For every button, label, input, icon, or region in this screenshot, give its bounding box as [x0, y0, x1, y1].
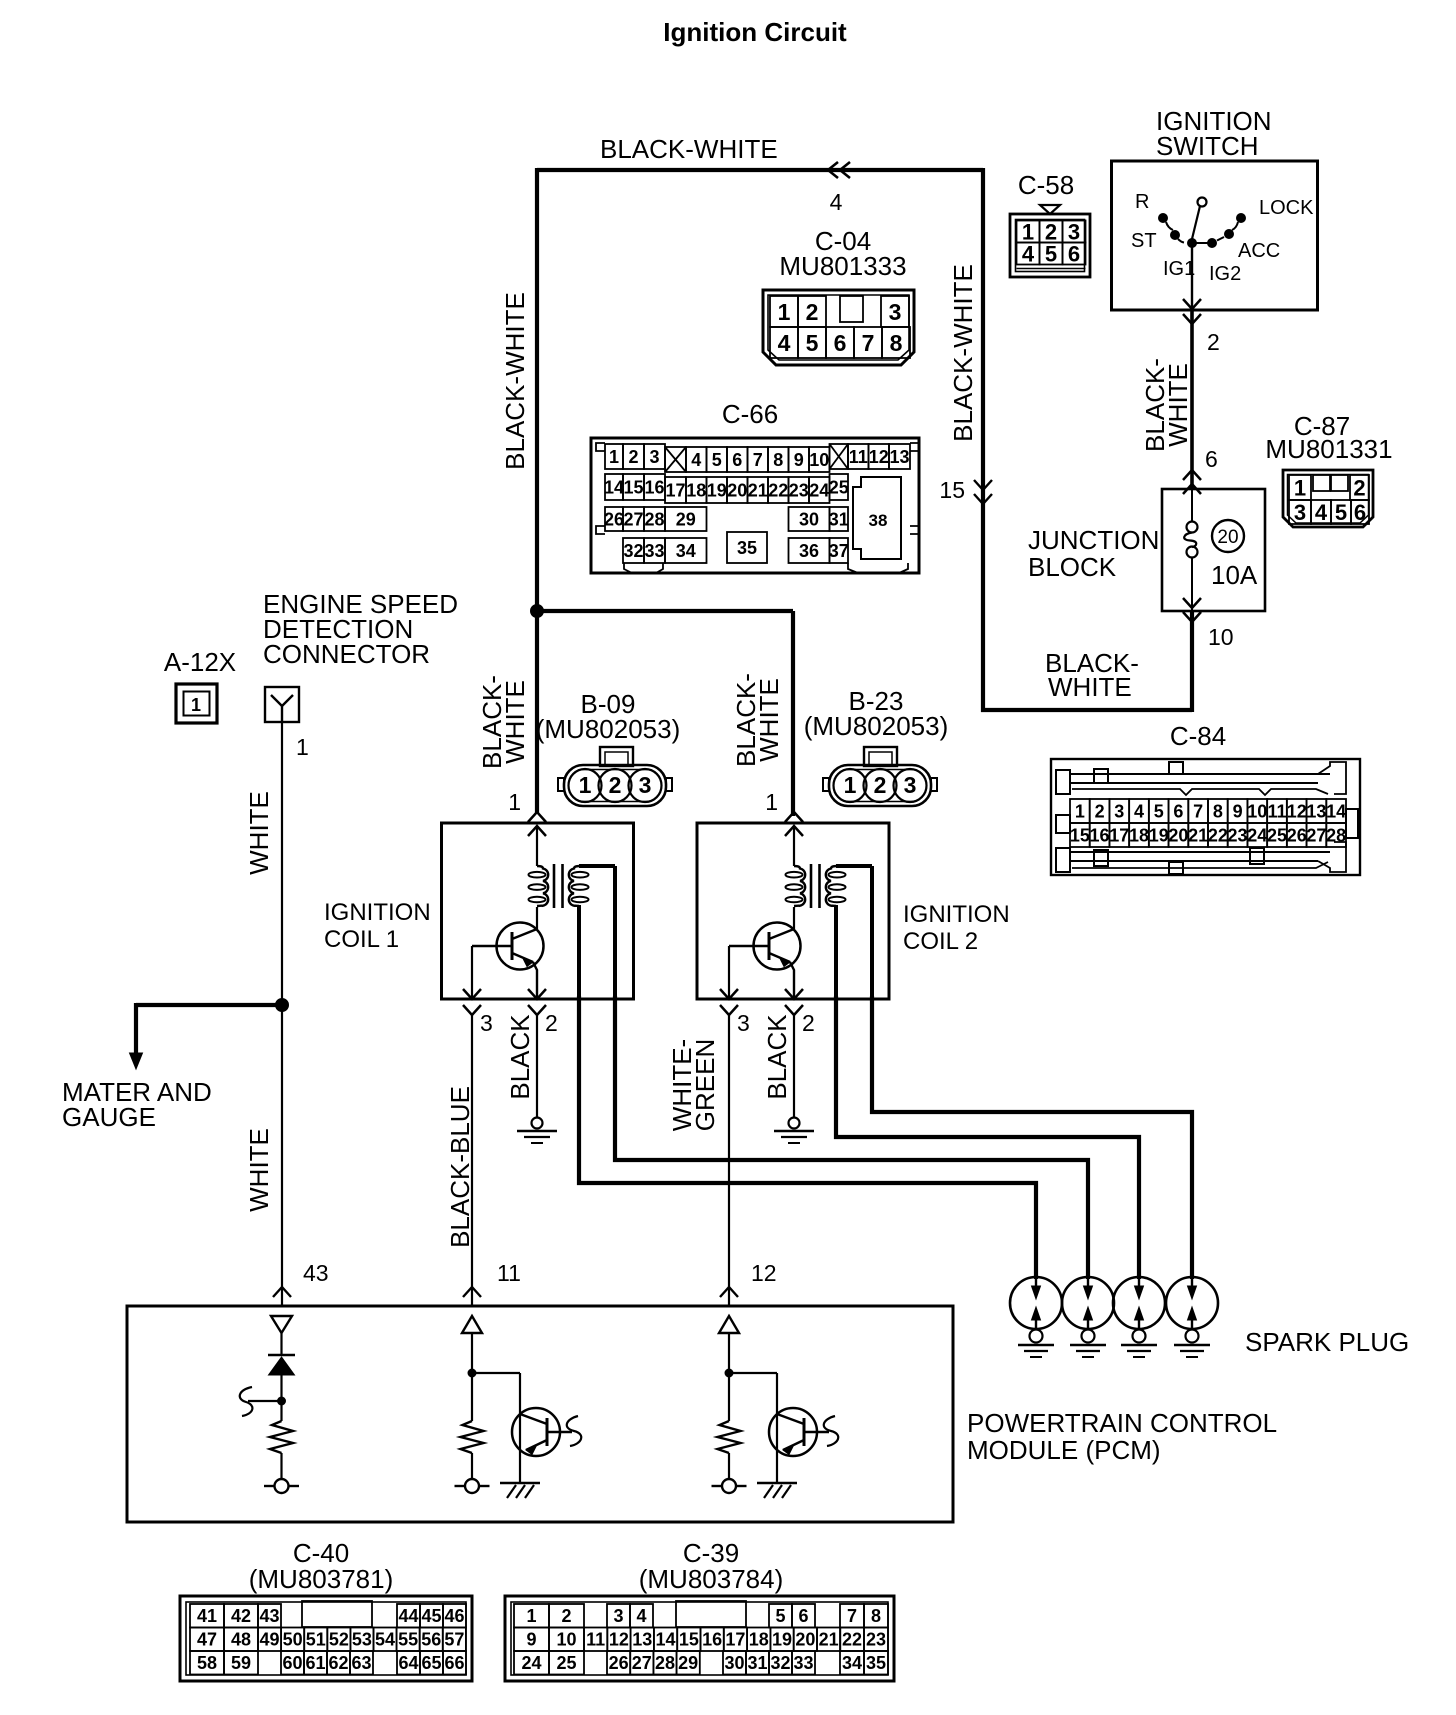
svg-text:5: 5 — [1335, 500, 1347, 525]
svg-text:BLACK-WHITE: BLACK-WHITE — [500, 292, 530, 470]
connector C-84 pin cells row 2 — [1070, 823, 1090, 847]
wire: bottom horizontal from junction block — [981, 708, 1192, 712]
connector C-04 cells — [770, 296, 798, 327]
svg-text:1: 1 — [1075, 801, 1085, 821]
svg-text:6: 6 — [1205, 446, 1218, 472]
svg-text:2: 2 — [609, 772, 622, 798]
svg-text:1: 1 — [765, 789, 778, 815]
fuse number 20 circled — [1212, 520, 1244, 552]
svg-text:17: 17 — [725, 1630, 745, 1650]
arrow into PCM pin 43 — [273, 1287, 291, 1297]
svg-text:3: 3 — [1294, 500, 1306, 525]
svg-text:15: 15 — [679, 1630, 699, 1650]
ground symbol (coil 2) — [789, 1118, 800, 1129]
svg-text:15: 15 — [1070, 825, 1090, 845]
svg-text:17: 17 — [1109, 825, 1129, 845]
connector A-12X symbol — [176, 684, 217, 723]
svg-text:19: 19 — [772, 1630, 792, 1650]
wire: WHITE from engine speed detection connector — [281, 722, 283, 1306]
svg-text:WHITE: WHITE — [244, 791, 274, 875]
transformer core (coil 1) — [553, 864, 556, 908]
svg-text:SWITCH: SWITCH — [1156, 131, 1259, 161]
connector B-09 body — [600, 747, 633, 766]
svg-text:BLACK: BLACK — [505, 1014, 535, 1100]
svg-text:9: 9 — [1233, 801, 1243, 821]
svg-text:24: 24 — [1247, 825, 1267, 845]
arrows entering junction block — [1183, 470, 1201, 480]
wire and junction (PCM pin 11) — [471, 1333, 473, 1421]
svg-text:20: 20 — [795, 1630, 815, 1650]
ignition switch contact tails — [1166, 222, 1173, 230]
svg-text:65: 65 — [421, 1653, 441, 1673]
svg-text:4: 4 — [691, 450, 701, 470]
svg-text:11: 11 — [497, 1260, 521, 1286]
svg-text:13: 13 — [889, 447, 909, 467]
svg-text:(MU803784): (MU803784) — [639, 1564, 784, 1594]
svg-text:4: 4 — [636, 1606, 646, 1626]
connector C-04 body — [763, 290, 914, 365]
PCM pin 43 input marker — [271, 1316, 292, 1333]
arrow into PCM pin 11 — [463, 1287, 481, 1297]
spark plug 1 ground — [1030, 1330, 1043, 1343]
svg-text:COIL 1: COIL 1 — [324, 926, 399, 953]
svg-text:1: 1 — [844, 772, 857, 798]
spark plug 2 — [1062, 1277, 1114, 1329]
svg-text:27: 27 — [623, 509, 643, 529]
svg-text:14: 14 — [656, 1630, 676, 1650]
svg-text:22: 22 — [842, 1630, 862, 1650]
connector C-66 row 2 cells — [605, 474, 623, 500]
svg-text:5: 5 — [1045, 241, 1057, 266]
svg-text:48: 48 — [231, 1630, 251, 1650]
svg-text:24: 24 — [809, 480, 829, 500]
svg-text:4: 4 — [830, 189, 843, 215]
svg-text:26: 26 — [1287, 825, 1307, 845]
wire: secondary top output (coil 2) — [836, 864, 872, 868]
svg-text:11: 11 — [849, 447, 868, 467]
connector C-58 body — [1010, 214, 1090, 277]
svg-text:23: 23 — [789, 480, 809, 500]
svg-text:31: 31 — [829, 509, 849, 529]
PCM pin 12 input marker — [719, 1316, 739, 1333]
arrows out of coil 2 pin 3 — [720, 989, 738, 999]
connector C-84 side tabs — [1056, 815, 1070, 833]
wire: BLACK-WHITE right vertical riser — [981, 168, 985, 712]
wire and junction (PCM pin 12) — [728, 1333, 730, 1421]
wire: coil 1 pin 3 drop — [471, 946, 473, 999]
svg-text:45: 45 — [421, 1606, 441, 1626]
connector C-40 row 2 cells — [190, 1628, 224, 1652]
svg-text:29: 29 — [678, 1653, 698, 1673]
svg-text:32: 32 — [623, 541, 643, 561]
ignition switch rotary contact lever — [1198, 198, 1207, 207]
svg-text:BLACK-WHITE: BLACK-WHITE — [948, 264, 978, 442]
junction node to meter branch — [276, 999, 289, 1012]
svg-text:2: 2 — [806, 299, 819, 325]
svg-text:25: 25 — [829, 477, 849, 497]
spark plug 4 — [1166, 1277, 1218, 1329]
svg-text:30: 30 — [799, 509, 819, 529]
svg-text:IG2: IG2 — [1209, 263, 1241, 285]
svg-text:BLACK: BLACK — [762, 1014, 792, 1100]
svg-text:GAUGE: GAUGE — [62, 1102, 156, 1132]
svg-text:21: 21 — [748, 480, 768, 500]
svg-text:(MU803781): (MU803781) — [249, 1564, 394, 1594]
arrows leaving junction block — [1183, 598, 1201, 608]
svg-text:21: 21 — [819, 1630, 839, 1650]
svg-text:ST: ST — [1131, 230, 1157, 252]
svg-text:19: 19 — [1149, 825, 1169, 845]
svg-text:22: 22 — [768, 480, 788, 500]
svg-text:2: 2 — [1095, 801, 1105, 821]
svg-text:11: 11 — [1267, 801, 1286, 821]
svg-text:43: 43 — [259, 1606, 279, 1626]
svg-text:1: 1 — [508, 789, 521, 815]
arrowhead to meter and gauge — [130, 1053, 143, 1069]
svg-text:6: 6 — [1068, 241, 1080, 266]
wire: coil 2 secondary bottom to spark plug 3 — [836, 996, 1139, 1279]
svg-text:59: 59 — [231, 1653, 251, 1673]
spark plug 1 — [1010, 1277, 1062, 1329]
resistor (PCM pin 43) — [270, 1421, 293, 1453]
svg-text:32: 32 — [770, 1653, 790, 1673]
terminal (PCM pin 11) — [465, 1479, 479, 1493]
driver transistor (PCM pin 12) — [769, 1408, 817, 1456]
svg-text:3: 3 — [904, 772, 917, 798]
svg-text:IG1: IG1 — [1163, 258, 1195, 280]
terminal (PCM pin 12) — [722, 1479, 736, 1493]
svg-text:57: 57 — [444, 1630, 464, 1650]
svg-text:18: 18 — [749, 1630, 769, 1650]
connector C-39 row 1 cells — [514, 1604, 549, 1628]
wire: coil 2 pin 3 drop — [728, 946, 730, 999]
transformer secondary winding (coil 1) — [569, 866, 580, 906]
svg-text:36: 36 — [799, 541, 819, 561]
svg-text:49: 49 — [260, 1630, 280, 1650]
spark plug 3 — [1113, 1277, 1165, 1329]
connector C-87 body — [1283, 470, 1373, 527]
connector C-66 row 3 cells — [605, 507, 623, 531]
svg-text:5: 5 — [806, 330, 819, 356]
svg-text:12: 12 — [609, 1630, 629, 1650]
arrows out of coil 1 pin 3 — [463, 989, 481, 999]
svg-text:46: 46 — [444, 1606, 464, 1626]
svg-text:3: 3 — [889, 299, 902, 325]
svg-text:58: 58 — [197, 1653, 217, 1673]
svg-text:16: 16 — [1090, 825, 1110, 845]
svg-text:IGNITION: IGNITION — [903, 901, 1010, 928]
wire: WHITE-GREEN coil 2 pin 3 to PCM pin 12 — [728, 1015, 730, 1306]
arrows out of coil 2 pin 2 — [785, 989, 803, 999]
connector C-66 mounting tabs — [596, 443, 605, 451]
svg-text:27: 27 — [1306, 825, 1326, 845]
svg-text:47: 47 — [197, 1630, 217, 1650]
internal connection squiggle (PCM pin 11) — [567, 1416, 581, 1446]
ground symbol (coil 1) — [532, 1118, 543, 1129]
svg-text:35: 35 — [737, 538, 757, 558]
connector C-84 pin cells row 1 — [1070, 799, 1090, 823]
svg-text:23: 23 — [866, 1630, 886, 1650]
svg-text:BLOCK: BLOCK — [1028, 552, 1117, 582]
svg-text:C-66: C-66 — [722, 399, 778, 429]
svg-text:MU801333: MU801333 — [779, 251, 906, 281]
wire: BLACK-WHITE vertical to ignition coil 1 — [535, 168, 539, 814]
svg-text:34: 34 — [842, 1653, 862, 1673]
svg-text:56: 56 — [421, 1630, 441, 1650]
spark plug 2 ground — [1082, 1330, 1095, 1343]
svg-text:3: 3 — [649, 447, 659, 467]
svg-text:(MU802053): (MU802053) — [804, 711, 949, 741]
arrows at ignition switch exit — [1183, 299, 1201, 309]
svg-text:2: 2 — [561, 1606, 571, 1626]
wire: secondary bottom output (coil 2) — [834, 905, 838, 999]
connector C-39 row 2 cells — [514, 1628, 549, 1652]
svg-text:WHITE: WHITE — [244, 1128, 274, 1212]
svg-text:GREEN: GREEN — [690, 1039, 720, 1131]
svg-text:42: 42 — [231, 1606, 251, 1626]
connector C-84 top rail — [1056, 770, 1070, 794]
svg-text:WHITE: WHITE — [1163, 363, 1193, 447]
svg-text:21: 21 — [1188, 825, 1208, 845]
svg-text:1: 1 — [579, 772, 592, 798]
svg-text:7: 7 — [862, 330, 875, 356]
svg-text:34: 34 — [676, 541, 696, 561]
svg-text:13: 13 — [632, 1630, 652, 1650]
svg-text:A-12X: A-12X — [164, 647, 236, 677]
wire: coil 2 pin 2 to ground — [793, 1015, 795, 1117]
connector C-66 row 1 cells — [605, 444, 623, 469]
wire: secondary top output (coil 1) — [579, 864, 615, 868]
svg-text:31: 31 — [747, 1653, 767, 1673]
svg-text:7: 7 — [753, 450, 763, 470]
junction node at coil branch — [531, 605, 544, 618]
svg-text:6: 6 — [798, 1606, 808, 1626]
svg-text:WHITE: WHITE — [500, 680, 530, 764]
svg-text:R: R — [1135, 191, 1149, 213]
connector B-23 pin circles — [834, 769, 867, 802]
svg-text:2: 2 — [1207, 329, 1220, 355]
driver transistor (PCM pin 11) — [512, 1408, 560, 1456]
engine speed detection connector symbol — [265, 687, 299, 722]
svg-text:6: 6 — [732, 450, 742, 470]
arrows into ignition coil 2 pin 1 — [785, 812, 803, 822]
svg-text:LOCK: LOCK — [1259, 197, 1314, 219]
svg-text:35: 35 — [866, 1653, 886, 1673]
svg-text:20: 20 — [727, 480, 747, 500]
svg-text:20: 20 — [1168, 825, 1188, 845]
svg-text:CONNECTOR: CONNECTOR — [263, 639, 430, 669]
svg-text:53: 53 — [352, 1630, 372, 1650]
connector C-84 bottom rail — [1056, 848, 1070, 872]
spark plug 4 ground — [1186, 1330, 1199, 1343]
wire: coil 1 secondary top to spark plug 2 — [615, 996, 1088, 1279]
svg-text:4: 4 — [1134, 801, 1144, 821]
connector C-66 row 4 cells — [623, 538, 644, 563]
svg-text:10: 10 — [809, 450, 829, 470]
svg-text:30: 30 — [724, 1653, 744, 1673]
svg-text:63: 63 — [351, 1653, 371, 1673]
wire: BLACK-BLUE coil 1 pin 3 to PCM pin 11 — [471, 1015, 473, 1306]
svg-text:38: 38 — [869, 511, 888, 530]
svg-text:51: 51 — [306, 1630, 326, 1650]
svg-text:54: 54 — [375, 1630, 395, 1650]
svg-text:7: 7 — [1193, 801, 1203, 821]
PCM pin 11 input marker — [462, 1316, 482, 1333]
svg-text:2: 2 — [545, 1010, 558, 1036]
arrows into ignition coil 1 pin 1 — [528, 812, 546, 822]
svg-text:POWERTRAIN CONTROL: POWERTRAIN CONTROL — [967, 1408, 1277, 1438]
arrow into PCM pin 12 — [720, 1287, 738, 1297]
svg-text:41: 41 — [197, 1606, 217, 1626]
svg-text:37: 37 — [829, 541, 849, 561]
transformer primary winding (coil 2) — [793, 826, 795, 866]
svg-text:23: 23 — [1228, 825, 1248, 845]
svg-text:18: 18 — [1129, 825, 1149, 845]
svg-text:55: 55 — [398, 1630, 418, 1650]
resistor (PCM pin 12) — [718, 1421, 741, 1453]
svg-text:COIL 2: COIL 2 — [903, 928, 978, 955]
svg-text:SPARK PLUG: SPARK PLUG — [1245, 1327, 1409, 1357]
svg-text:10: 10 — [1247, 801, 1267, 821]
power transistor (coil 1) — [497, 923, 544, 970]
svg-text:1: 1 — [609, 447, 619, 467]
svg-text:15: 15 — [623, 477, 643, 497]
svg-text:22: 22 — [1208, 825, 1228, 845]
svg-text:24: 24 — [521, 1653, 541, 1673]
svg-text:3: 3 — [613, 1606, 623, 1626]
svg-text:6: 6 — [1354, 500, 1366, 525]
wire: coil 2 secondary top to spark plug 4 — [872, 996, 1192, 1279]
svg-text:C-84: C-84 — [1170, 721, 1226, 751]
svg-text:13: 13 — [1306, 801, 1326, 821]
svg-text:52: 52 — [329, 1630, 349, 1650]
svg-text:26: 26 — [609, 1653, 629, 1673]
ignition switch box — [1112, 161, 1318, 310]
svg-text:1: 1 — [1294, 475, 1306, 500]
svg-text:2: 2 — [628, 447, 638, 467]
svg-text:50: 50 — [283, 1630, 303, 1650]
svg-text:4: 4 — [1315, 500, 1328, 525]
svg-text:2: 2 — [1353, 475, 1365, 500]
connector C-58 keyway triangle — [1040, 205, 1060, 214]
svg-text:17: 17 — [665, 480, 685, 500]
connector C-40 row 3 cells — [190, 1651, 224, 1675]
svg-text:10: 10 — [556, 1630, 576, 1650]
svg-text:12: 12 — [1287, 801, 1307, 821]
powertrain control module box — [127, 1306, 953, 1522]
svg-text:ACC: ACC — [1238, 240, 1280, 262]
svg-text:WHITE: WHITE — [754, 678, 784, 762]
svg-text:43: 43 — [303, 1260, 329, 1286]
svg-text:MODULE (PCM): MODULE (PCM) — [967, 1435, 1161, 1465]
svg-text:1: 1 — [296, 734, 309, 760]
svg-text:8: 8 — [773, 450, 783, 470]
svg-text:MU801331: MU801331 — [1265, 434, 1392, 464]
svg-text:18: 18 — [686, 480, 706, 500]
svg-text:8: 8 — [871, 1606, 881, 1626]
svg-text:6: 6 — [834, 330, 847, 356]
chassis ground (PCM pin 11) — [500, 1482, 540, 1485]
svg-text:16: 16 — [702, 1630, 722, 1650]
svg-text:25: 25 — [1267, 825, 1287, 845]
svg-text:9: 9 — [526, 1630, 536, 1650]
svg-text:62: 62 — [328, 1653, 348, 1673]
svg-text:27: 27 — [632, 1653, 652, 1673]
svg-text:(MU802053): (MU802053) — [536, 714, 681, 744]
svg-text:3: 3 — [480, 1010, 493, 1036]
connector C-84 body — [1051, 759, 1360, 875]
ignition switch contact dots — [1159, 214, 1168, 223]
connector C-40 body — [180, 1596, 472, 1681]
transformer primary winding (coil 1) — [536, 826, 538, 866]
svg-text:10: 10 — [1208, 624, 1234, 650]
svg-text:26: 26 — [604, 509, 624, 529]
internal connection squiggle (PCM pin 12) — [824, 1416, 838, 1446]
resistor (PCM pin 11) — [461, 1421, 484, 1453]
svg-text:BLACK-BLUE: BLACK-BLUE — [445, 1086, 475, 1248]
svg-text:44: 44 — [398, 1606, 418, 1626]
svg-text:20: 20 — [1217, 527, 1238, 548]
junction block box — [1162, 489, 1265, 611]
svg-text:14: 14 — [604, 477, 624, 497]
svg-text:5: 5 — [1154, 801, 1164, 821]
wire: secondary bottom output (coil 1) — [577, 905, 581, 999]
svg-text:Ignition Circuit: Ignition Circuit — [663, 17, 847, 47]
svg-text:29: 29 — [676, 509, 696, 529]
transformer secondary winding (coil 2) — [826, 866, 837, 906]
internal connection squiggle (PCM pin 43) — [248, 1400, 282, 1402]
arrows out of coil 1 pin 2 — [528, 989, 546, 999]
connector C-66 pass-through arrows on riser — [974, 480, 992, 490]
svg-text:25: 25 — [556, 1653, 576, 1673]
svg-text:12: 12 — [869, 447, 889, 467]
svg-text:33: 33 — [793, 1653, 813, 1673]
wire: coil 1 pin 2 to ground — [536, 1015, 538, 1117]
svg-text:2: 2 — [874, 772, 887, 798]
wire: branch to meter and gauge — [136, 1003, 282, 1007]
connector B-09 pin circles — [569, 769, 602, 802]
connector B-23 body — [864, 747, 897, 766]
svg-text:33: 33 — [644, 541, 664, 561]
svg-text:5: 5 — [712, 450, 722, 470]
diode (PCM pin 43) — [280, 1333, 282, 1355]
ignition coil 1 box — [442, 823, 634, 999]
svg-text:JUNCTION: JUNCTION — [1028, 525, 1159, 555]
transformer core (coil 2) — [810, 864, 813, 908]
svg-text:8: 8 — [1213, 801, 1223, 821]
connector pass-through arrows on top wire — [828, 162, 838, 178]
svg-text:1: 1 — [191, 695, 201, 715]
connector C-66 body — [591, 438, 919, 573]
spark plug 3 ground — [1133, 1330, 1146, 1343]
svg-text:14: 14 — [1326, 801, 1346, 821]
svg-text:9: 9 — [794, 450, 804, 470]
wire: branch to ignition coil 2 — [537, 609, 793, 613]
svg-text:5: 5 — [775, 1606, 785, 1626]
svg-text:BLACK-WHITE: BLACK-WHITE — [600, 134, 778, 164]
svg-text:19: 19 — [707, 480, 727, 500]
svg-text:C-58: C-58 — [1018, 170, 1074, 200]
svg-text:WHITE: WHITE — [1048, 672, 1132, 702]
chassis ground (PCM pin 12) — [757, 1482, 797, 1485]
terminal (PCM pin 43) — [275, 1479, 289, 1493]
ignition coil 2 box — [697, 823, 889, 999]
svg-text:8: 8 — [890, 330, 903, 356]
svg-text:28: 28 — [655, 1653, 675, 1673]
wire: ignition switch output pin 2 — [1191, 243, 1193, 310]
svg-text:3: 3 — [737, 1010, 750, 1036]
svg-text:60: 60 — [282, 1653, 302, 1673]
